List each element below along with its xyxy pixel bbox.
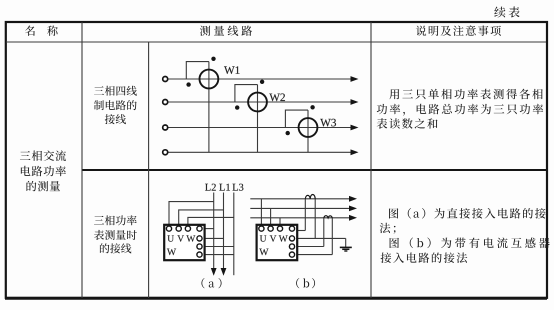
wire b-t2-ground	[292, 237, 346, 239]
wire wrap U-L2	[169, 202, 214, 227]
note2 line4	[381, 252, 468, 262]
wire b-t3	[292, 246, 324, 248]
ground stub	[345, 238, 347, 247]
wire phase line 2	[168, 101, 352, 103]
arrow phase line 3	[351, 125, 359, 131]
note2 line1	[389, 208, 546, 219]
terminal box-b top 2	[268, 226, 273, 231]
wire L1 vertical	[223, 193, 225, 269]
label W box-a	[167, 249, 176, 256]
wire out t3-L3	[200, 246, 234, 248]
wire stub W	[279, 218, 281, 227]
note2 line2	[380, 223, 396, 234]
label subrow2 line3 的接线	[100, 243, 131, 253]
label header 名称	[25, 26, 58, 36]
wire b-t4	[292, 254, 332, 256]
label UVW box-b	[260, 235, 288, 241]
wire b-phase 3	[250, 217, 350, 219]
terminal input 3	[163, 125, 168, 130]
current coil loop W1	[186, 62, 209, 79]
label caption (a)	[201, 278, 221, 288]
label row name line1 三相交流	[20, 150, 66, 161]
arrow L2 down	[211, 268, 217, 276]
table divider col1	[81, 22, 83, 298]
voltage wire W1	[208, 62, 210, 153]
polarity dot W2 bottom	[235, 105, 239, 109]
CT1 secondary right	[314, 199, 316, 239]
terminal box-b top 1	[259, 226, 264, 231]
wire phase line 3	[168, 127, 352, 129]
table header underline	[6, 41, 546, 43]
table bottom border	[5, 297, 547, 300]
label caption (b)	[296, 278, 315, 288]
terminal box-b right 2	[289, 244, 294, 249]
terminal box-a right 3	[197, 252, 202, 257]
terminal box-b top 4	[289, 226, 294, 231]
wire L3 vertical	[233, 193, 235, 276]
wire wrap V-L1	[179, 210, 224, 227]
label header 说明及注意事项	[416, 25, 501, 35]
CT2 secondary left	[323, 218, 325, 247]
label subrow1 line3 接线	[105, 114, 126, 124]
wire out corner-L2	[200, 228, 214, 230]
voltage wire W2	[257, 85, 259, 153]
terminal input 2	[163, 100, 168, 105]
terminal box-a top 1	[166, 226, 171, 231]
wattmeter box (a)	[164, 225, 204, 260]
label W1	[224, 66, 240, 74]
label L2 L1 L3	[205, 184, 243, 191]
note1 line2	[377, 104, 543, 116]
terminal input 4	[163, 150, 168, 155]
wire stub V	[270, 208, 272, 227]
wire out t4-L3	[200, 254, 234, 256]
polarity dot W3 top	[310, 105, 314, 109]
label UVW box-a	[167, 235, 195, 241]
wire wrap W-L3	[188, 217, 234, 227]
arrow phase line 1	[351, 76, 359, 82]
wire b-corner	[292, 230, 305, 232]
CT1 secondary left	[304, 199, 306, 231]
arrow b-phase 3	[349, 215, 357, 221]
current coil loop W2	[235, 85, 258, 102]
CT2 secondary right	[331, 218, 333, 255]
terminal box-b right 3	[289, 252, 294, 257]
label subrow1 line2 制电路的	[94, 100, 137, 110]
polarity dot W1 bottom	[186, 82, 190, 86]
wire phase line 4	[168, 151, 352, 153]
terminal box-a top 3	[185, 226, 190, 231]
label subrow2 line1 三相功率	[94, 215, 137, 225]
table divider col3	[370, 22, 372, 298]
terminal box-a top 2	[176, 226, 181, 231]
label subrow1 line1 三相四线	[94, 86, 137, 96]
terminal box-b right 1	[289, 236, 294, 241]
label caption 续表	[494, 7, 519, 18]
label W2	[269, 94, 285, 102]
table divider col2	[148, 42, 150, 298]
wattmeter W3	[299, 118, 318, 137]
arrow phase line 2	[351, 99, 359, 105]
current coil loop W3	[285, 110, 308, 127]
wire stub U	[260, 199, 262, 227]
wattmeter W1	[200, 70, 219, 89]
terminal box-a right 1	[197, 236, 202, 241]
wire L2 vertical	[213, 193, 215, 269]
note2 line3	[390, 238, 550, 249]
arrow L1 down	[221, 268, 227, 276]
label subrow2 line2 表测量时	[94, 230, 137, 240]
ground	[340, 247, 352, 251]
wire out t2-L1	[200, 237, 224, 239]
wire b-phase 1	[250, 198, 350, 200]
label header 测量线路	[200, 26, 252, 36]
label row name line2 电路功率	[21, 166, 66, 177]
note1 line3	[377, 118, 438, 129]
arrow b-phase 2	[349, 206, 357, 212]
label row name line3 的测量	[26, 181, 60, 191]
table mid divider	[82, 169, 546, 171]
wattmeter W2	[248, 93, 267, 112]
voltage wire W3	[307, 110, 309, 152]
label W3	[320, 119, 336, 127]
wire b-phase 2	[250, 207, 350, 209]
CT2 winding	[324, 216, 333, 218]
polarity dot W1 top	[211, 57, 215, 61]
polarity dot W2 top	[260, 80, 264, 84]
CT1 winding	[305, 195, 315, 199]
polarity dot W3 bottom	[286, 131, 290, 135]
terminal box-a top 4	[197, 226, 202, 231]
label W box-b	[259, 249, 268, 256]
arrow b-phase 1	[349, 196, 357, 202]
note1 line1	[389, 89, 542, 100]
terminal input 1	[163, 77, 168, 82]
terminal box-a right 2	[197, 244, 202, 249]
wattmeter box (b)	[257, 225, 298, 260]
arrow phase line 4	[351, 149, 359, 155]
wire phase line 1	[168, 78, 352, 80]
terminal box-b top 3	[277, 226, 282, 231]
